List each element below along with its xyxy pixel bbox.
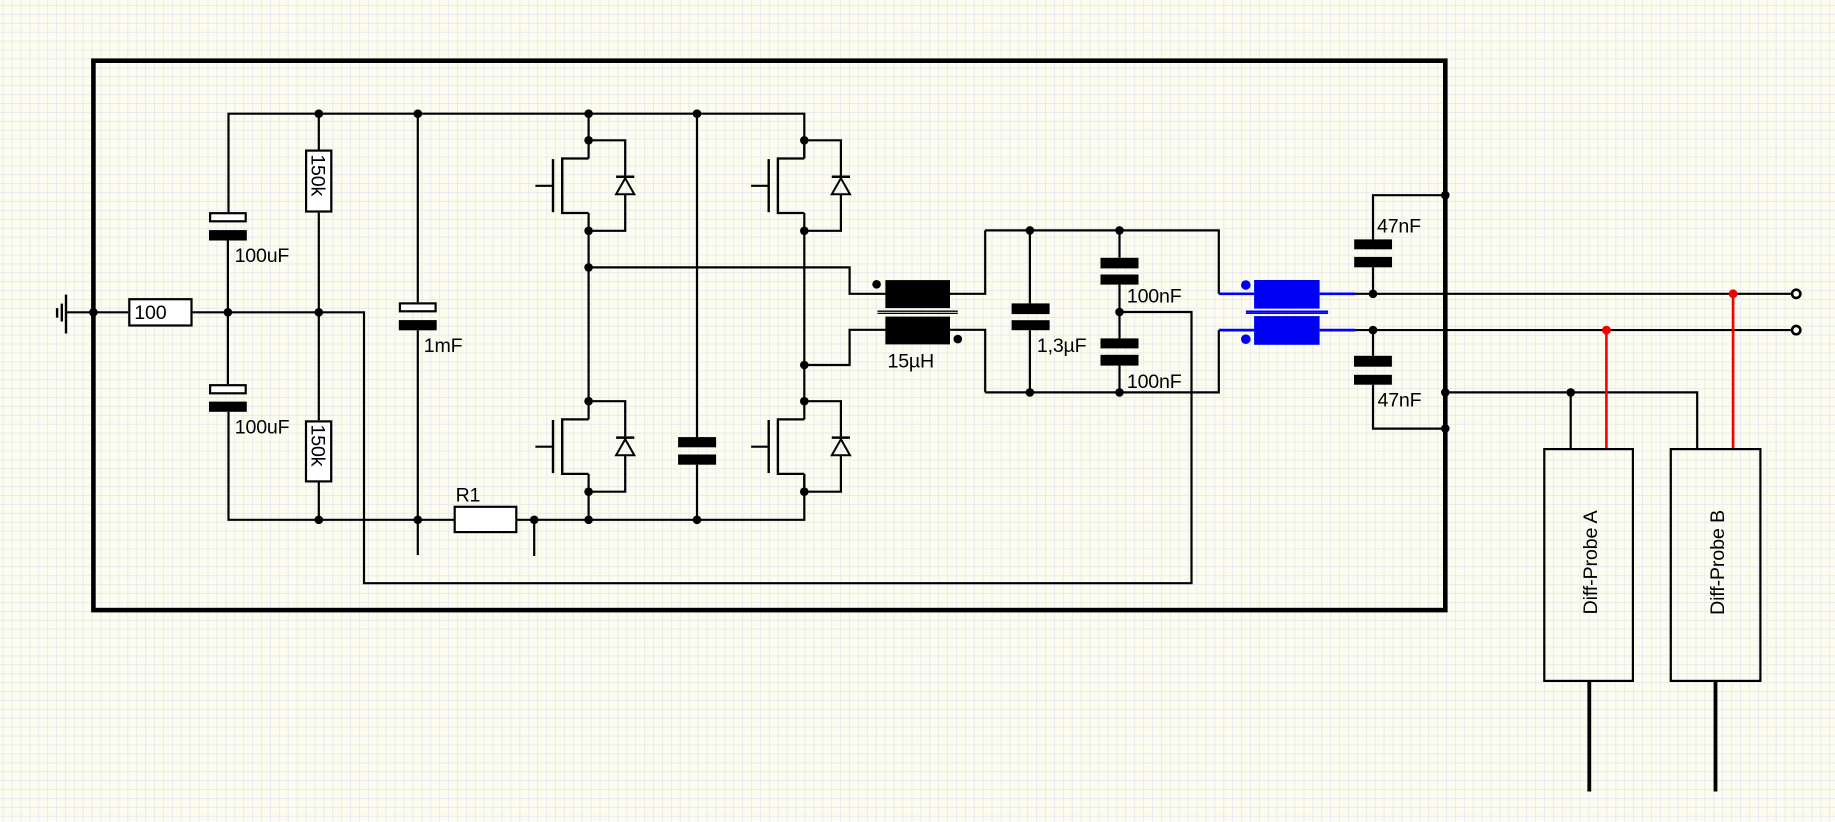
wire shield to probes [1445, 392, 1697, 448]
wire phase B to inductor [804, 330, 885, 365]
svg-text:15µH: 15µH [888, 351, 934, 373]
node shield probe tap [1441, 388, 1450, 397]
wire phase A to inductor [589, 267, 886, 293]
wire output line A [1356, 293, 1791, 295]
inductor L1 15µH coupled [872, 230, 985, 392]
terminal A [1792, 290, 1800, 298]
mosfet Q1 (top-left) with body diode [535, 136, 634, 235]
node shield at 47nF lower [1441, 424, 1450, 433]
capacitor C3 1mF [399, 114, 463, 555]
node bottom rail 1mF [414, 516, 423, 525]
wire top rail [229, 114, 805, 212]
node mid row at 100uF column [224, 308, 233, 317]
node probe B signal tap (red) [1729, 289, 1738, 298]
svg-text:Diff-Probe A: Diff-Probe A [1580, 510, 1602, 615]
resistor 150k lower [306, 312, 331, 520]
wire probe A signal (red) [1605, 330, 1608, 448]
capacitor C2 100uF lower [209, 312, 290, 438]
wire T1 primary lead right [1320, 292, 1356, 295]
capacitor C1 100uF upper [209, 213, 289, 312]
node output B 47nF tap [1369, 326, 1378, 335]
transformer T1 secondary winding [1254, 316, 1320, 345]
wire Q3 source to rail [587, 474, 589, 520]
mosfet Q4 (bottom-right) with body diode [751, 397, 850, 496]
svg-text:R1: R1 [456, 484, 481, 506]
node top rail 150k [315, 109, 324, 118]
node output A 47nF tap [1369, 290, 1378, 299]
wire filter bottom rail [985, 330, 1219, 392]
svg-text:150k: 150k [307, 154, 329, 196]
capacitor C6 100nF lower [1101, 312, 1182, 393]
node filter bottom 1,3µF [1026, 388, 1035, 397]
svg-text:100uF: 100uF [235, 417, 290, 439]
node bottom rail Q3 source column [584, 516, 593, 525]
svg-text:100nF: 100nF [1127, 371, 1182, 393]
transformer T1 primary winding [1254, 280, 1320, 309]
probe box Diff-Probe B [1671, 449, 1761, 681]
wire stub below rail at R1 right [533, 520, 535, 556]
wire probe A ground lead [1570, 392, 1572, 448]
wire mid row / sense return [193, 312, 1192, 583]
node 100nF midpoint [1115, 308, 1124, 317]
svg-text:Diff-Probe B: Diff-Probe B [1707, 510, 1729, 615]
probe A pin [1587, 682, 1591, 792]
node on shield left border [89, 308, 98, 317]
transformer T1 core [1246, 311, 1328, 313]
mosfet Q2 (top-right) with body diode [751, 136, 850, 235]
svg-text:47nF: 47nF [1378, 390, 1422, 412]
node filter top 1,3µF [1026, 226, 1035, 235]
svg-text:1mF: 1mF [424, 335, 463, 357]
wire output line B [1356, 329, 1791, 331]
wire phase-B column [803, 213, 805, 419]
node top rail 1mF [414, 109, 423, 118]
capacitor C7 47nF upper [1354, 195, 1445, 294]
svg-text:100nF: 100nF [1127, 286, 1182, 308]
probe B pin [1714, 682, 1718, 792]
wire Q4 source to rail [803, 474, 805, 493]
mosfet Q3 (bottom-left) with body diode [535, 397, 634, 496]
capacitor C4 1,3µF [1012, 230, 1087, 392]
svg-text:1,3µF: 1,3µF [1037, 335, 1087, 357]
enclosure box (shield) [93, 61, 1445, 610]
node top rail snubber column [693, 109, 702, 118]
node filter top 100nF [1115, 226, 1124, 235]
resistor 100 [129, 299, 191, 325]
wire Q1 drain column [587, 114, 589, 159]
wire filter top rail [985, 230, 1219, 293]
svg-text:100: 100 [134, 302, 166, 324]
node shield top-right [1441, 191, 1450, 200]
node phase A [584, 263, 593, 272]
capacitor snubber mid-bridge [678, 114, 716, 520]
node top rail Q1 drain column [584, 109, 593, 118]
transformer T1 polarity dots [1241, 280, 1251, 344]
ground [57, 295, 66, 334]
node probe A signal tap (red) [1602, 326, 1611, 335]
capacitor C5 100nF upper [1101, 230, 1182, 312]
terminal B [1792, 326, 1800, 334]
wire ground to R 100 [66, 311, 128, 313]
node bottom rail R1 stub [530, 516, 539, 525]
resistor 150k upper [306, 114, 331, 313]
node phase B [800, 361, 809, 370]
wire bottom rail [229, 412, 805, 520]
wire T1 secondary lead left [1219, 329, 1254, 332]
wire T1 secondary lead right [1320, 329, 1356, 332]
wire Q2 drain column [803, 139, 805, 159]
probe box Diff-Probe A [1544, 449, 1633, 681]
node mid row at 150k column [315, 308, 324, 317]
wire phase-A column [587, 213, 589, 419]
node probe A ground tap [1566, 388, 1575, 397]
svg-text:47nF: 47nF [1377, 215, 1421, 237]
capacitor C8 47nF lower [1354, 330, 1445, 429]
wire T1 primary lead left [1219, 292, 1254, 295]
node filter bottom 100nF [1115, 388, 1124, 397]
resistor R1 [455, 484, 517, 532]
wire probe B signal (red) [1732, 294, 1735, 448]
node bottom rail 150k [315, 516, 324, 525]
svg-text:100uF: 100uF [235, 245, 290, 267]
node bottom rail snubber column [693, 516, 702, 525]
svg-text:150k: 150k [307, 425, 329, 467]
